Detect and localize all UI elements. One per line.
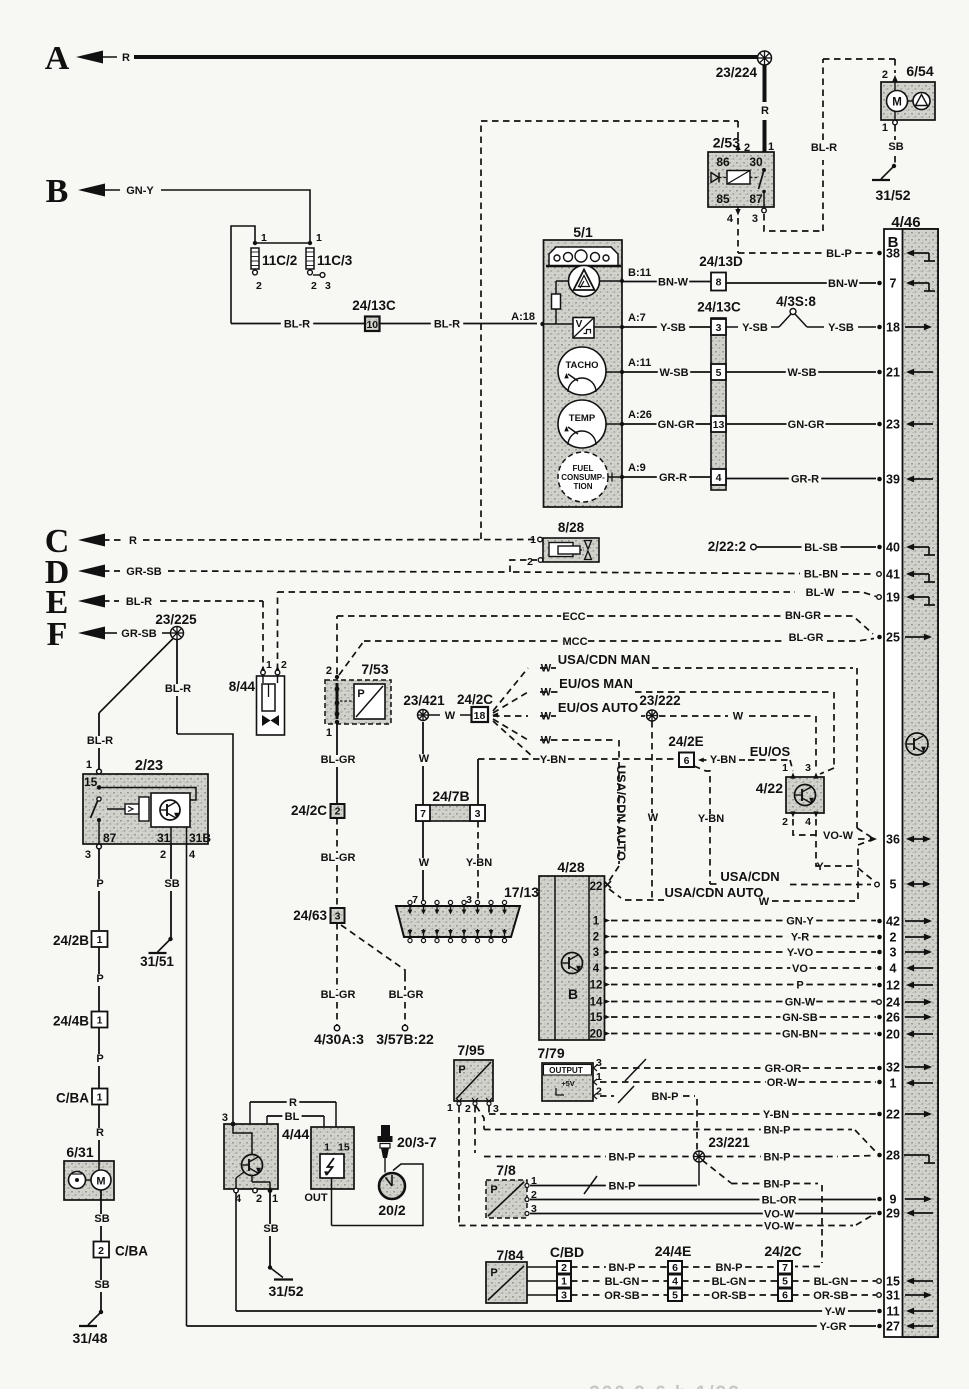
- svg-text:TION: TION: [573, 482, 592, 491]
- svg-text:14: 14: [590, 997, 603, 1009]
- svg-text:3: 3: [805, 762, 811, 774]
- svg-text:B: B: [46, 173, 69, 210]
- svg-text:A:7: A:7: [628, 312, 646, 324]
- svg-text:4: 4: [189, 849, 196, 861]
- svg-text:C/BA: C/BA: [56, 1091, 89, 1106]
- svg-text:2: 2: [890, 931, 897, 945]
- svg-text:15: 15: [84, 775, 98, 789]
- svg-text:2: 2: [561, 1262, 567, 1274]
- svg-text:SB: SB: [94, 1213, 109, 1225]
- svg-text:20/3-7: 20/3-7: [397, 1134, 437, 1150]
- svg-text:31B: 31B: [189, 831, 211, 845]
- svg-text:USA/CDN AUTO: USA/CDN AUTO: [614, 765, 628, 861]
- svg-text:11C/2: 11C/2: [262, 253, 297, 268]
- svg-text:Y-BN: Y-BN: [698, 813, 724, 825]
- svg-text:ECC: ECC: [562, 611, 585, 623]
- svg-text:2: 2: [160, 849, 166, 861]
- svg-text:3/57B:22: 3/57B:22: [376, 1031, 434, 1047]
- svg-text:BL: BL: [285, 1111, 300, 1123]
- svg-text:MCC: MCC: [562, 636, 587, 648]
- svg-text:BL-GR: BL-GR: [789, 632, 824, 644]
- svg-text:Y-BN: Y-BN: [466, 857, 492, 869]
- svg-text:USA/CDN MAN: USA/CDN MAN: [558, 652, 650, 667]
- svg-text:6: 6: [782, 1290, 788, 1302]
- svg-text:4: 4: [890, 962, 897, 976]
- svg-text:GR-R: GR-R: [659, 472, 687, 484]
- svg-text:GN-SB: GN-SB: [782, 1012, 818, 1024]
- svg-text:P: P: [96, 973, 103, 985]
- svg-text:2: 2: [882, 69, 888, 81]
- svg-text:1: 1: [890, 1077, 897, 1091]
- svg-text:Y-SB: Y-SB: [828, 322, 854, 334]
- svg-text:EU/OS: EU/OS: [750, 744, 791, 759]
- svg-text:Y-SB: Y-SB: [742, 322, 768, 334]
- svg-text:R: R: [129, 535, 137, 547]
- svg-text:OR-SB: OR-SB: [604, 1290, 640, 1302]
- svg-text:BN-P: BN-P: [609, 1181, 636, 1193]
- svg-text:24/63: 24/63: [293, 908, 327, 923]
- svg-text:W-SB: W-SB: [659, 367, 688, 379]
- svg-text:BL-R: BL-R: [434, 319, 460, 331]
- svg-text:85: 85: [716, 192, 730, 206]
- svg-text:23/221: 23/221: [708, 1135, 750, 1150]
- svg-text:3: 3: [561, 1290, 567, 1302]
- svg-text:23/222: 23/222: [639, 693, 680, 708]
- svg-text:R: R: [122, 52, 130, 64]
- svg-text:11C/3: 11C/3: [317, 253, 353, 268]
- svg-text:BN-P: BN-P: [652, 1091, 679, 1103]
- svg-text:6: 6: [684, 755, 690, 767]
- svg-text:87: 87: [749, 192, 763, 206]
- svg-text:P: P: [96, 878, 103, 890]
- svg-text:7: 7: [782, 1262, 788, 1274]
- svg-text:7/8: 7/8: [496, 1162, 516, 1178]
- svg-text:4/30A:3: 4/30A:3: [314, 1031, 364, 1047]
- svg-text:2: 2: [593, 932, 599, 944]
- svg-text:24/13C: 24/13C: [352, 298, 396, 313]
- svg-text:BL-R: BL-R: [126, 596, 152, 608]
- svg-text:Y-BN: Y-BN: [540, 754, 566, 766]
- svg-text:BN-P: BN-P: [764, 1179, 791, 1191]
- svg-text:GN-GR: GN-GR: [658, 419, 695, 431]
- svg-text:3: 3: [222, 1112, 228, 1124]
- svg-text:5: 5: [782, 1276, 788, 1288]
- svg-text:19: 19: [886, 591, 900, 605]
- svg-text:20: 20: [886, 1028, 900, 1042]
- svg-text:8/44: 8/44: [229, 679, 256, 694]
- svg-text:USA/CDN: USA/CDN: [720, 869, 779, 884]
- svg-text:B: B: [568, 986, 578, 1002]
- svg-text:GN-Y: GN-Y: [786, 916, 814, 928]
- svg-text:30: 30: [749, 155, 763, 169]
- svg-text:TACHO: TACHO: [565, 360, 598, 371]
- svg-text:4/3S:8: 4/3S:8: [776, 294, 816, 309]
- svg-text:31: 31: [157, 831, 171, 845]
- svg-text:21: 21: [886, 366, 900, 380]
- svg-text:40: 40: [886, 541, 900, 555]
- svg-text:W: W: [419, 753, 430, 765]
- svg-text:24/2C: 24/2C: [764, 1243, 801, 1259]
- svg-text:BL-GN: BL-GN: [814, 1276, 849, 1288]
- svg-text:Y: Y: [816, 861, 824, 873]
- svg-text:A: A: [45, 40, 70, 77]
- svg-text:24/7B: 24/7B: [432, 788, 469, 804]
- svg-text:GN-W: GN-W: [785, 997, 816, 1009]
- svg-text:R: R: [96, 1127, 104, 1139]
- svg-text:28: 28: [886, 1149, 900, 1163]
- svg-text:39: 39: [886, 473, 900, 487]
- svg-text:1: 1: [86, 759, 92, 771]
- svg-text:OR-SB: OR-SB: [813, 1290, 849, 1302]
- svg-text:4: 4: [672, 1276, 678, 1288]
- svg-text:42: 42: [886, 915, 900, 929]
- svg-text:C/BD: C/BD: [550, 1244, 584, 1260]
- svg-text:2: 2: [465, 1103, 471, 1115]
- svg-text:11: 11: [886, 1305, 899, 1319]
- svg-text:2/23: 2/23: [135, 758, 163, 774]
- svg-text:2: 2: [256, 280, 262, 292]
- svg-text:6/54: 6/54: [906, 63, 933, 79]
- svg-text:7: 7: [890, 277, 897, 291]
- svg-text:Y-W: Y-W: [825, 1306, 846, 1318]
- svg-text:23/224: 23/224: [716, 65, 758, 80]
- svg-text:Y-BN: Y-BN: [763, 1109, 789, 1121]
- svg-text:M: M: [892, 97, 902, 109]
- svg-text:A:11: A:11: [628, 357, 651, 369]
- svg-text:5/1: 5/1: [573, 224, 593, 240]
- svg-text:SB: SB: [164, 878, 179, 890]
- svg-text:12: 12: [886, 979, 900, 993]
- svg-text:3: 3: [716, 322, 722, 334]
- svg-text:18: 18: [474, 710, 486, 722]
- svg-text:BN-P: BN-P: [716, 1262, 743, 1274]
- svg-text:VO-W: VO-W: [764, 1209, 795, 1221]
- svg-text:24/2E: 24/2E: [668, 734, 703, 749]
- svg-text:W: W: [759, 896, 770, 908]
- svg-text:86: 86: [716, 155, 730, 169]
- svg-text:3: 3: [475, 808, 481, 820]
- svg-text:24/2B: 24/2B: [53, 933, 89, 948]
- svg-text:32: 32: [886, 1061, 900, 1075]
- svg-text:1: 1: [326, 727, 332, 739]
- svg-text:VO-W: VO-W: [764, 1221, 795, 1233]
- svg-text:3: 3: [466, 894, 472, 906]
- svg-text:BL-SB: BL-SB: [804, 542, 838, 554]
- svg-text:W: W: [648, 812, 659, 824]
- svg-text:7/53: 7/53: [361, 661, 388, 677]
- svg-text:31/52: 31/52: [268, 1283, 303, 1299]
- svg-text:5: 5: [890, 878, 897, 892]
- svg-text:GR-OR: GR-OR: [765, 1063, 802, 1075]
- svg-text:BN-P: BN-P: [609, 1262, 636, 1274]
- svg-text:R: R: [761, 105, 769, 117]
- svg-text:2: 2: [311, 280, 317, 292]
- svg-text:GR-R: GR-R: [791, 474, 819, 486]
- svg-text:VO: VO: [792, 963, 808, 975]
- svg-text:BL-OR: BL-OR: [762, 1195, 797, 1207]
- svg-text:W: W: [445, 710, 456, 722]
- svg-text:24/13C: 24/13C: [697, 300, 741, 315]
- svg-text:4: 4: [727, 213, 734, 225]
- svg-text:P: P: [458, 1064, 465, 1076]
- svg-text:V: V: [576, 319, 583, 330]
- svg-text:BL-BN: BL-BN: [804, 569, 838, 581]
- svg-text:SB: SB: [94, 1279, 109, 1291]
- svg-text:BL-R: BL-R: [811, 142, 837, 154]
- svg-text:1: 1: [530, 534, 536, 546]
- svg-text:23/421: 23/421: [403, 693, 445, 708]
- svg-text:7/84: 7/84: [496, 1247, 523, 1263]
- svg-text:25: 25: [886, 631, 900, 645]
- svg-text:1: 1: [97, 1092, 103, 1104]
- svg-text:W: W: [419, 857, 430, 869]
- svg-text:BN-P: BN-P: [609, 1152, 636, 1164]
- svg-text:EU/OS AUTO: EU/OS AUTO: [558, 700, 638, 715]
- svg-text:87: 87: [103, 831, 117, 845]
- svg-text:7/95: 7/95: [457, 1042, 484, 1058]
- svg-text:BL-R: BL-R: [87, 735, 113, 747]
- svg-text:OUT: OUT: [304, 1192, 328, 1204]
- svg-text:31/48: 31/48: [72, 1330, 107, 1346]
- svg-text:20: 20: [590, 1029, 603, 1041]
- svg-text:2: 2: [335, 806, 341, 818]
- svg-text:36: 36: [886, 833, 900, 847]
- svg-text:22: 22: [886, 1108, 900, 1122]
- svg-text:31/51: 31/51: [140, 954, 174, 969]
- svg-text:24/2C: 24/2C: [457, 692, 493, 707]
- svg-text:Y-SB: Y-SB: [660, 322, 686, 334]
- svg-text:BN-GR: BN-GR: [785, 610, 821, 622]
- svg-text:R: R: [289, 1097, 297, 1109]
- svg-text:BN-W: BN-W: [828, 278, 859, 290]
- svg-text:8: 8: [716, 277, 722, 289]
- svg-text:1: 1: [97, 934, 103, 946]
- svg-text:USA/CDN AUTO: USA/CDN AUTO: [665, 885, 764, 900]
- svg-text:1: 1: [768, 141, 774, 153]
- svg-text:6: 6: [672, 1262, 678, 1274]
- svg-text:1: 1: [782, 762, 788, 774]
- svg-text:24/4E: 24/4E: [655, 1243, 692, 1259]
- svg-text:4: 4: [593, 963, 600, 975]
- svg-text:BL-P: BL-P: [826, 248, 852, 260]
- svg-text:1: 1: [261, 232, 267, 244]
- svg-text:FUEL: FUEL: [573, 464, 594, 473]
- svg-text:1: 1: [447, 1102, 453, 1114]
- svg-text:A:18: A:18: [511, 311, 535, 323]
- svg-text:VO-W: VO-W: [823, 830, 854, 842]
- svg-text:OR-SB: OR-SB: [711, 1290, 747, 1302]
- svg-text:BL-GN: BL-GN: [712, 1276, 747, 1288]
- svg-text:3: 3: [752, 213, 758, 225]
- svg-text:A:26: A:26: [628, 409, 652, 421]
- svg-text:10: 10: [366, 319, 378, 331]
- svg-text:1: 1: [316, 232, 322, 244]
- svg-text:W-SB: W-SB: [787, 367, 816, 379]
- svg-text:GR-SB: GR-SB: [126, 566, 162, 578]
- svg-text:3: 3: [890, 946, 897, 960]
- svg-text:1: 1: [324, 1142, 330, 1154]
- svg-text:15: 15: [338, 1142, 350, 1154]
- svg-text:12: 12: [590, 980, 603, 992]
- svg-text:BL-GN: BL-GN: [605, 1276, 640, 1288]
- svg-text:SB: SB: [888, 141, 903, 153]
- svg-text:1: 1: [593, 916, 600, 928]
- svg-text:BL-R: BL-R: [165, 683, 191, 695]
- svg-text:5: 5: [716, 367, 722, 379]
- svg-text:300 2-6 h 1/92: 300 2-6 h 1/92: [589, 1383, 741, 1389]
- svg-text:4/22: 4/22: [756, 780, 783, 796]
- svg-text:BN-W: BN-W: [658, 277, 689, 289]
- svg-text:29: 29: [886, 1207, 900, 1221]
- svg-text:20/2: 20/2: [378, 1202, 405, 1218]
- svg-text:Y-R: Y-R: [791, 932, 809, 944]
- svg-text:TEMP: TEMP: [569, 413, 596, 424]
- svg-text:24/13D: 24/13D: [699, 254, 743, 269]
- svg-text:GN-BN: GN-BN: [782, 1029, 818, 1041]
- svg-text:3: 3: [593, 947, 599, 959]
- svg-text:7: 7: [412, 894, 418, 906]
- svg-text:4/44: 4/44: [282, 1126, 309, 1142]
- svg-text:2: 2: [98, 1245, 104, 1257]
- svg-text:2: 2: [326, 665, 332, 677]
- svg-text:7/79: 7/79: [537, 1045, 564, 1061]
- svg-text:P: P: [357, 688, 364, 700]
- svg-text:2/22:2: 2/22:2: [708, 539, 746, 554]
- svg-text:GN-GR: GN-GR: [788, 419, 825, 431]
- svg-text:1: 1: [272, 1193, 278, 1205]
- svg-text:+5V: +5V: [561, 1079, 575, 1088]
- svg-text:CONSUMP-: CONSUMP-: [561, 473, 605, 482]
- svg-text:4: 4: [805, 816, 811, 828]
- svg-text:2: 2: [782, 816, 788, 828]
- svg-text:Y-GR: Y-GR: [820, 1321, 847, 1333]
- svg-text:F: F: [47, 616, 68, 653]
- svg-text:A:9: A:9: [628, 462, 646, 474]
- svg-text:41: 41: [886, 568, 900, 582]
- svg-text:1: 1: [97, 1015, 103, 1027]
- svg-text:13: 13: [713, 419, 725, 431]
- svg-text:P: P: [96, 1053, 103, 1065]
- svg-text:W: W: [733, 711, 744, 723]
- svg-text:24/2C: 24/2C: [291, 803, 327, 818]
- svg-text:SB: SB: [263, 1223, 278, 1235]
- svg-text:2: 2: [256, 1193, 262, 1205]
- svg-text:P: P: [490, 1184, 497, 1196]
- svg-text:1: 1: [561, 1276, 567, 1288]
- svg-text:BL-GR: BL-GR: [321, 852, 356, 864]
- svg-text:18: 18: [886, 321, 900, 335]
- svg-text:15: 15: [886, 1275, 900, 1289]
- svg-text:1: 1: [266, 659, 272, 671]
- svg-text:7: 7: [420, 808, 426, 820]
- svg-text:BL-GR: BL-GR: [389, 989, 424, 1001]
- svg-text:BN-P: BN-P: [764, 1152, 791, 1164]
- svg-text:3: 3: [85, 849, 91, 861]
- svg-text:22: 22: [590, 881, 603, 893]
- svg-text:8/28: 8/28: [558, 520, 585, 535]
- svg-text:BL-R: BL-R: [284, 319, 310, 331]
- svg-text:2: 2: [281, 659, 287, 671]
- svg-text:OUTPUT: OUTPUT: [549, 1066, 583, 1075]
- svg-text:24: 24: [886, 996, 900, 1010]
- svg-text:BL-W: BL-W: [806, 587, 835, 599]
- svg-text:9: 9: [890, 1193, 897, 1207]
- svg-text:C/BA: C/BA: [115, 1244, 148, 1259]
- svg-text:38: 38: [886, 247, 900, 261]
- svg-text:2: 2: [744, 142, 750, 154]
- svg-text:GN-Y: GN-Y: [126, 185, 154, 197]
- svg-text:27: 27: [886, 1320, 900, 1334]
- svg-text:17/13: 17/13: [504, 884, 539, 900]
- svg-text:3: 3: [325, 280, 331, 292]
- svg-text:P: P: [796, 980, 803, 992]
- svg-text:31/52: 31/52: [875, 187, 910, 203]
- svg-text:BN-P: BN-P: [764, 1125, 791, 1137]
- svg-text:23: 23: [886, 418, 900, 432]
- svg-text:1: 1: [882, 122, 888, 134]
- svg-text:B:11: B:11: [628, 267, 651, 279]
- svg-text:23/225: 23/225: [155, 612, 197, 627]
- svg-text:GR-SB: GR-SB: [121, 628, 157, 640]
- svg-text:BL-GR: BL-GR: [321, 754, 356, 766]
- svg-text:5: 5: [672, 1290, 678, 1302]
- svg-text:3: 3: [335, 911, 341, 923]
- svg-text:15: 15: [590, 1012, 603, 1024]
- svg-text:3: 3: [493, 1103, 499, 1115]
- svg-text:OR-W: OR-W: [767, 1077, 798, 1089]
- svg-text:2: 2: [527, 556, 533, 568]
- svg-text:Y-BN: Y-BN: [710, 754, 736, 766]
- svg-text:4/28: 4/28: [557, 859, 584, 875]
- svg-text:Y-VO: Y-VO: [787, 947, 814, 959]
- svg-text:24/4B: 24/4B: [53, 1014, 89, 1029]
- svg-text:26: 26: [886, 1011, 900, 1025]
- svg-text:31: 31: [886, 1289, 900, 1303]
- svg-text:M: M: [96, 1176, 105, 1188]
- svg-text:P: P: [490, 1267, 497, 1279]
- svg-text:6/31: 6/31: [66, 1144, 93, 1160]
- svg-text:4: 4: [716, 472, 722, 484]
- svg-text:EU/OS MAN: EU/OS MAN: [559, 676, 633, 691]
- svg-text:BL-GR: BL-GR: [321, 989, 356, 1001]
